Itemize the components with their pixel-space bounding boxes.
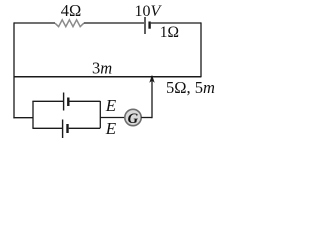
top branch wire right <box>70 100 101 102</box>
wire top-middle segment <box>84 22 144 24</box>
potentiometer wire 3m <box>14 76 201 78</box>
svg-text:3m: 3m <box>92 59 112 78</box>
svg-text:1Ω: 1Ω <box>160 24 179 41</box>
svg-text:10V: 10V <box>135 3 163 20</box>
wire top-right segment <box>151 22 201 24</box>
jockey arrowhead <box>149 75 154 83</box>
wire left vertical <box>13 22 15 118</box>
cell E1 short plate <box>67 98 69 107</box>
cell E2 short plate <box>66 124 68 133</box>
svg-text:E: E <box>105 96 117 115</box>
svg-text:G: G <box>128 111 139 127</box>
wire galvanometer to jockey <box>141 117 152 119</box>
cell E1 long plate <box>63 93 65 111</box>
wire rect to galvanometer <box>100 117 124 119</box>
parallel cells right vertical wire <box>99 101 101 128</box>
parallel cells left vertical wire <box>32 101 34 128</box>
wire top-left segment <box>14 22 55 24</box>
wire bottom-left horizontal <box>13 117 33 119</box>
wire right vertical <box>200 22 202 77</box>
svg-text:E: E <box>105 119 117 138</box>
galvanometer G body <box>125 109 141 125</box>
battery cell 10V short plate <box>148 22 150 29</box>
battery cell 10V long plate <box>144 17 146 34</box>
cell E2 long plate <box>62 120 64 139</box>
bottom branch wire right <box>69 127 101 129</box>
svg-text:5Ω, 5m: 5Ω, 5m <box>166 78 215 97</box>
resistor R 4ohm zigzag <box>55 20 84 27</box>
jockey vertical wire <box>151 76 153 118</box>
top branch wire left <box>32 100 63 102</box>
bottom branch wire left <box>32 127 62 129</box>
svg-text:4Ω: 4Ω <box>61 1 82 20</box>
